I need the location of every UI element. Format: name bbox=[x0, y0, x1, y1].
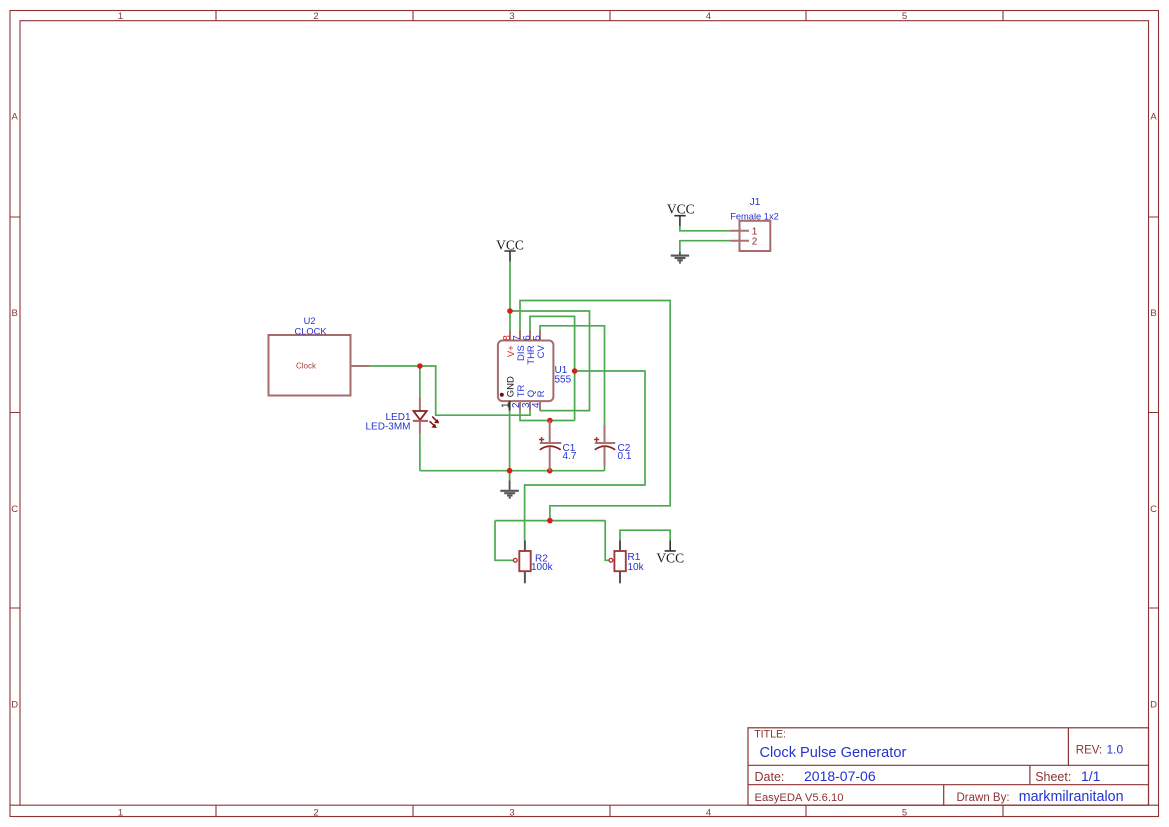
capacitor C1 bbox=[539, 421, 577, 471]
svg-text:R: R bbox=[536, 390, 547, 397]
svg-text:5: 5 bbox=[902, 808, 907, 819]
svg-text:1.0: 1.0 bbox=[1107, 743, 1124, 757]
pin 6 lead bbox=[529, 331, 531, 341]
svg-text:4: 4 bbox=[706, 11, 711, 22]
svg-text:3: 3 bbox=[509, 11, 514, 22]
svg-text:2018-07-06: 2018-07-06 bbox=[804, 768, 876, 784]
node VCC junction bbox=[507, 308, 513, 314]
svg-text:CV: CV bbox=[536, 345, 547, 359]
pin 2 lead bbox=[519, 401, 521, 411]
svg-text:C: C bbox=[11, 504, 18, 515]
svg-text:REV:: REV: bbox=[1076, 745, 1102, 757]
wire LED cathode to gnd row bbox=[419, 433, 421, 471]
svg-text:1: 1 bbox=[118, 11, 123, 22]
C2 bottom lead bbox=[604, 447, 606, 466]
svg-text:A: A bbox=[1150, 112, 1157, 123]
svg-text:1: 1 bbox=[501, 402, 512, 408]
resistor R2 bbox=[513, 541, 553, 584]
svg-text:Drawn By:: Drawn By: bbox=[957, 792, 1010, 804]
svg-text:B: B bbox=[1150, 308, 1156, 319]
pin 5 lead bbox=[539, 331, 541, 341]
svg-text:D: D bbox=[11, 700, 18, 711]
wire clock out bbox=[370, 365, 420, 367]
wire R1 top to VCC flag bbox=[620, 530, 670, 540]
svg-text:1: 1 bbox=[118, 808, 123, 819]
node gnd row junction 1 bbox=[507, 468, 513, 474]
svg-text:2: 2 bbox=[313, 808, 318, 819]
svg-text:U2: U2 bbox=[304, 316, 316, 326]
svg-text:Female 1x2: Female 1x2 bbox=[730, 211, 779, 221]
VCC flag main bbox=[496, 237, 524, 261]
connector J1 bbox=[730, 197, 779, 251]
wire pin3 Q to LED node bbox=[420, 366, 530, 415]
svg-text:C: C bbox=[1150, 504, 1157, 515]
svg-text:VCC: VCC bbox=[656, 550, 684, 565]
LED1 bbox=[365, 398, 439, 434]
LED triangle bbox=[414, 411, 427, 420]
node THR junction bbox=[572, 368, 578, 374]
svg-text:markmilranitalon: markmilranitalon bbox=[1019, 789, 1124, 805]
pin 7 lead bbox=[519, 331, 521, 341]
R1 bottom lead bbox=[619, 571, 621, 583]
VCC flag near J1 bbox=[667, 201, 695, 226]
wire C2 bottom bbox=[604, 466, 606, 471]
junction dots bbox=[417, 308, 577, 523]
svg-text:D: D bbox=[1150, 700, 1157, 711]
pin 1 lead bbox=[509, 401, 511, 411]
wire pin6 THR down bbox=[530, 316, 575, 420]
border zone ticks right bbox=[1149, 217, 1159, 608]
svg-text:VCC: VCC bbox=[496, 237, 524, 252]
pin1 marker dot bbox=[500, 393, 504, 397]
node C1 top junction bbox=[547, 418, 553, 424]
resistor R1 bbox=[609, 541, 645, 584]
C1 plus sign bbox=[539, 437, 544, 442]
svg-text:100k: 100k bbox=[531, 562, 554, 573]
svg-text:4.7: 4.7 bbox=[563, 451, 577, 462]
VCC flag near R1 (inverted) bbox=[656, 541, 684, 566]
R2 body bbox=[519, 551, 530, 571]
svg-text:EasyEDA V5.6.10: EasyEDA V5.6.10 bbox=[755, 792, 844, 804]
wire pin7 DIS to wiper row bbox=[520, 301, 670, 521]
C2 plus sign bbox=[594, 437, 599, 442]
LED cathode bar bbox=[413, 420, 428, 422]
border corner caps bottom bbox=[10, 804, 1159, 806]
C1 top plate bbox=[540, 442, 562, 444]
R2 bottom lead bbox=[524, 571, 526, 583]
border zone ticks bottom bbox=[216, 805, 1003, 816]
C1 curved plate bbox=[540, 446, 561, 450]
LED light arrow 1 bbox=[432, 417, 437, 422]
svg-text:5: 5 bbox=[532, 335, 543, 341]
wire pin2 TR to C1 top bbox=[520, 411, 575, 421]
svg-text:2: 2 bbox=[313, 11, 318, 22]
svg-text:Clock: Clock bbox=[296, 361, 317, 370]
ground main bbox=[500, 481, 518, 498]
pin 3 lead bbox=[529, 401, 531, 411]
node clock/LED junction bbox=[417, 363, 423, 369]
R1 wiper ring bbox=[609, 558, 613, 562]
node wiper row junction bbox=[547, 518, 553, 524]
wire THR branch to R2 top bbox=[525, 371, 645, 541]
C2 curved plate bbox=[595, 446, 615, 450]
wire VCC to pin4 (reset) bbox=[510, 311, 590, 411]
svg-text:4: 4 bbox=[706, 808, 711, 819]
R2 top lead bbox=[524, 541, 526, 552]
border zone ticks top bbox=[216, 11, 1003, 21]
LED cathode lead bbox=[419, 421, 421, 433]
pin 8 lead bbox=[509, 331, 511, 341]
svg-text:B: B bbox=[12, 308, 18, 319]
LED anode lead bbox=[419, 398, 421, 411]
svg-text:3: 3 bbox=[509, 808, 514, 819]
svg-text:Sheet:: Sheet: bbox=[1035, 770, 1071, 784]
svg-text:4: 4 bbox=[531, 402, 542, 408]
svg-text:A: A bbox=[12, 112, 19, 123]
svg-text:5: 5 bbox=[902, 11, 907, 22]
wire pin5 CV to C2 bbox=[540, 326, 605, 425]
svg-text:TITLE:: TITLE: bbox=[754, 728, 786, 740]
svg-text:0.1: 0.1 bbox=[618, 451, 632, 462]
J1 pin 1 lead bbox=[730, 230, 749, 232]
C2 top plate bbox=[595, 442, 615, 444]
svg-text:CLOCK: CLOCK bbox=[294, 326, 327, 336]
WIRES bbox=[370, 226, 730, 560]
wire J1 pin2 to gnd bbox=[680, 241, 730, 252]
wire pin1 GND down bbox=[509, 411, 511, 481]
svg-text:LED-3MM: LED-3MM bbox=[365, 422, 410, 433]
R2 wiper ring bbox=[513, 558, 517, 562]
svg-text:1/1: 1/1 bbox=[1081, 768, 1101, 784]
pin 4 lead bbox=[539, 401, 541, 411]
wire LED anode bbox=[419, 366, 421, 398]
border zone ticks left bbox=[10, 217, 20, 608]
wire ground row bbox=[420, 470, 605, 472]
R1 top lead bbox=[619, 541, 621, 552]
clock pin lead bbox=[351, 365, 370, 367]
svg-text:GND: GND bbox=[506, 376, 517, 397]
LED light arrow 2 bbox=[430, 421, 435, 426]
svg-text:10k: 10k bbox=[628, 562, 645, 573]
wire J1 VCC to pin1 bbox=[680, 226, 730, 231]
J1 pin 2 lead bbox=[730, 240, 749, 242]
C2 top lead bbox=[604, 425, 606, 443]
svg-text:VCC: VCC bbox=[667, 201, 695, 216]
capacitor C2 bbox=[594, 425, 632, 466]
TITLE BLOCK bbox=[748, 728, 1149, 805]
svg-text:J1: J1 bbox=[750, 197, 761, 208]
op-amp U1 555 body bbox=[498, 331, 572, 411]
svg-text:555: 555 bbox=[555, 374, 572, 385]
C1 top lead bbox=[549, 421, 551, 444]
node gnd row junction 2 bbox=[547, 468, 553, 474]
svg-text:2: 2 bbox=[752, 236, 758, 247]
ground near J1 bbox=[671, 252, 689, 263]
wire VCC to pin8 bbox=[509, 262, 511, 331]
svg-text:Date:: Date: bbox=[755, 770, 785, 784]
svg-text:Clock Pulse Generator: Clock Pulse Generator bbox=[760, 745, 907, 761]
wire wiper row bbox=[495, 521, 609, 561]
C1 bottom lead bbox=[549, 447, 551, 471]
clock box U2 bbox=[269, 316, 370, 395]
R1 body bbox=[614, 551, 625, 571]
